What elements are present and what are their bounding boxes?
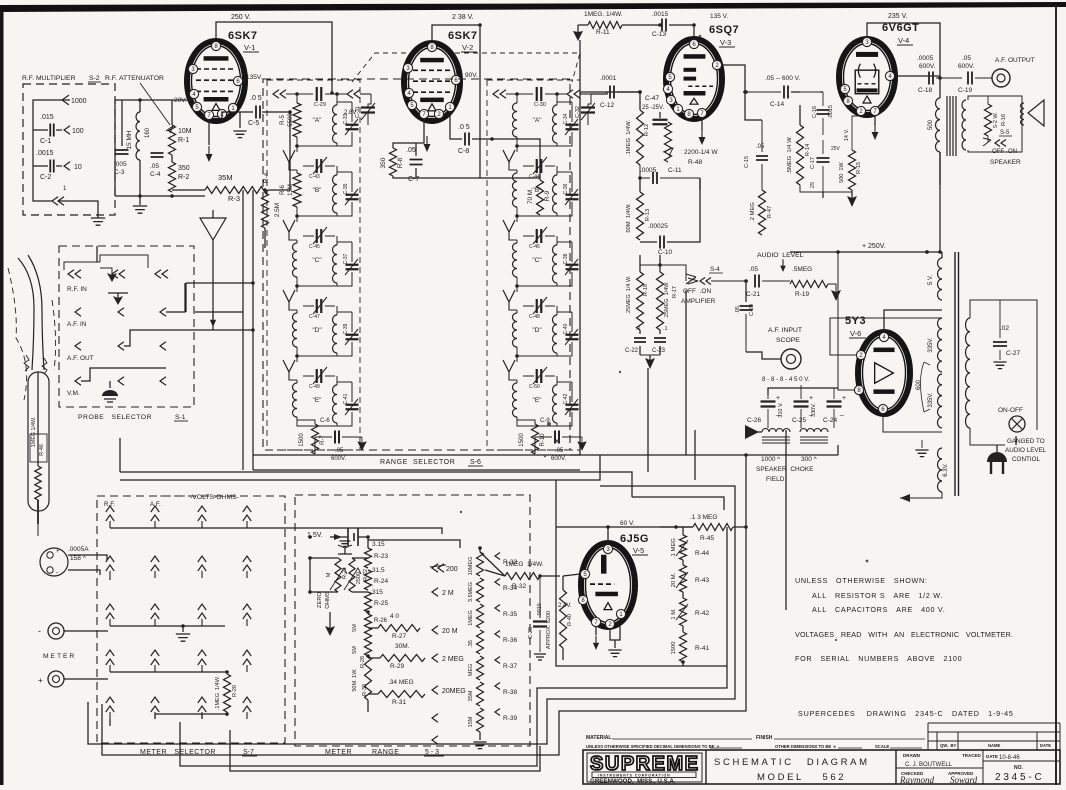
svg-text:.0005A: .0005A	[68, 546, 89, 553]
svg-text:1MEG: 1MEG	[468, 610, 474, 626]
svg-text:R-31: R-31	[392, 699, 406, 706]
resistor R-28	[352, 634, 372, 668]
svg-text:R-6: R-6	[280, 185, 286, 195]
wire bus D2	[746, 454, 838, 456]
resistor R-12 .1MEG	[626, 90, 650, 165]
switch S-1 row VM	[67, 368, 166, 397]
svg-text:1MEG 1/4W.: 1MEG 1/4W.	[31, 417, 37, 448]
svg-text:R-37: R-37	[503, 663, 517, 670]
resistor R-43 20M	[671, 560, 709, 592]
svg-text:R-47: R-47	[767, 206, 773, 219]
svg-text:C-23: C-23	[652, 348, 666, 354]
wire routing top center dashed	[352, 53, 580, 82]
svg-text:A.F. IN: A.F. IN	[67, 321, 87, 328]
svg-text:.015: .015	[40, 114, 54, 121]
resistor R-42 1M	[671, 592, 709, 626]
tube V3 6SQ7	[666, 39, 722, 119]
svg-text:MATERIAL: MATERIAL	[586, 735, 611, 741]
trimmer capacitor C-32	[575, 94, 595, 125]
svg-text:R-23: R-23	[374, 553, 388, 560]
svg-text:C-44: C-44	[529, 174, 540, 180]
svg-text:C. J. BOUTWELL: C. J. BOUTWELL	[905, 762, 953, 768]
svg-text:R-17: R-17	[672, 286, 678, 298]
wire V6 pin4 to transformer	[884, 310, 930, 332]
svg-text:6SK7: 6SK7	[228, 30, 258, 42]
svg-text:1500: 1500	[671, 642, 677, 655]
svg-text:R-18: R-18	[643, 284, 649, 296]
svg-text:R-10: R-10	[540, 433, 546, 447]
svg-text:MEG: MEG	[468, 664, 474, 677]
wire 235V supply V4	[867, 23, 940, 90]
svg-text:30M.: 30M.	[395, 643, 410, 650]
svg-text:100: 100	[72, 128, 84, 135]
svg-text:C-24: C-24	[823, 417, 837, 424]
tube V5 pins	[578, 544, 625, 628]
svg-text:C-37: C-37	[343, 253, 349, 264]
svg-text:S C H E M A T I C D I A G: S C H E M A T I C D I A G R A M	[714, 757, 867, 768]
resistor R-41 1500	[671, 626, 709, 666]
svg-text:"C": "C"	[532, 257, 542, 264]
tube V2 pins	[403, 42, 460, 118]
svg-text:35M: 35M	[468, 690, 474, 701]
ground R11	[573, 25, 583, 41]
svg-text:.05: .05	[406, 147, 416, 154]
svg-text:3.15: 3.15	[372, 541, 385, 548]
svg-text:C-48: C-48	[529, 314, 540, 320]
wire filter bus	[768, 388, 838, 395]
svg-text:A.F. OUTPUT: A.F. OUTPUT	[995, 57, 1035, 64]
capacitor C-17 electrolytic	[810, 140, 841, 192]
wire bottom long 1	[88, 497, 735, 744]
wire probe tip lead	[37, 524, 39, 536]
svg-text:.35: .35	[468, 640, 474, 648]
svg-text:1 M.: 1 M.	[671, 608, 677, 620]
svg-text:SPEAKER CHOKE: SPEAKER CHOKE	[756, 466, 814, 473]
resistor R-47 .2MEG	[750, 164, 773, 235]
svg-text:R-4: R-4	[263, 172, 270, 183]
probe body R-46	[28, 372, 49, 524]
resistor R-15 500 1W	[839, 125, 862, 190]
resistor R-18 .25MEG	[626, 272, 649, 330]
label 6J5G V-5	[620, 533, 649, 555]
svg-text:1500: 1500	[519, 433, 525, 447]
wire ladder2 top	[479, 548, 481, 552]
svg-text:25V: 25V	[831, 146, 841, 152]
svg-text:5M: 5M	[352, 624, 358, 632]
svg-text:20MEG: 20MEG	[442, 688, 466, 695]
svg-text:SUPERCEDES DRAWING 2345-C: SUPERCEDES DRAWING 2345-C DATED 1-9-45	[798, 709, 1014, 718]
tube V6 pins	[854, 332, 888, 413]
resistor R-35 1MEG	[468, 604, 517, 628]
resistor R-45 .13MEG	[660, 514, 748, 542]
labels RF AF columns	[104, 501, 161, 508]
svg-text:R-24: R-24	[374, 578, 388, 585]
svg-text:600: 600	[916, 379, 922, 390]
resistor R-3 35M	[172, 173, 268, 203]
svg-text:V-1: V-1	[244, 43, 255, 52]
capacitor C-12	[580, 75, 640, 109]
svg-text:R-26: R-26	[374, 618, 388, 624]
svg-text:C-18: C-18	[918, 87, 932, 94]
titleblock material finish line	[586, 735, 925, 741]
terminal meter plus	[38, 671, 108, 687]
svg-text:50M. 1W.: 50M. 1W.	[352, 668, 358, 692]
svg-text:.0001: .0001	[600, 75, 617, 82]
label PROBE SELECTOR S-1	[78, 414, 188, 421]
transformer T-output secondary	[962, 100, 966, 150]
svg-text:UNLESS OTHERWISE SPECIFIED DEC: UNLESS OTHERWISE SPECIFIED DECIMAL DIMEN…	[586, 744, 720, 749]
wire S2 to ground	[58, 201, 98, 218]
svg-text:3.5MEG: 3.5MEG	[468, 582, 474, 602]
capacitor C-7	[406, 143, 423, 183]
svg-text:C-17: C-17	[810, 157, 816, 169]
logo SUPREME	[587, 753, 702, 785]
svg-text:600V.: 600V.	[958, 63, 975, 70]
wire V2 pin7 arrow	[424, 136, 431, 152]
svg-text:90V.: 90V.	[465, 72, 478, 79]
resistor R-2 350	[169, 155, 190, 192]
svg-text:ZERO: ZERO	[317, 591, 323, 608]
wire bus F	[632, 497, 724, 510]
tube V4 pins	[840, 37, 894, 115]
svg-text:C-26: C-26	[747, 417, 761, 424]
choke 1000ohm	[762, 429, 790, 444]
wire 63 arrow	[900, 492, 942, 502]
labels speaker choke field	[756, 456, 818, 483]
ground probe dashed	[100, 268, 117, 282]
svg-text:2200-1/4 W: 2200-1/4 W	[684, 149, 718, 156]
label RF MULTIPLIER S-2	[22, 75, 101, 82]
capacitor C-10 .00025	[640, 223, 690, 256]
svg-text:C-47: C-47	[309, 314, 320, 320]
wire bus C	[120, 472, 632, 497]
svg-text:C-10: C-10	[658, 249, 672, 256]
svg-text:50M 1/4W.: 50M 1/4W.	[626, 203, 632, 233]
svg-text:CONTIOL: CONTIOL	[1012, 456, 1040, 463]
tuned circuit B of group x=487	[503, 150, 579, 222]
wire R3 right to R4	[263, 110, 292, 192]
wire S-4 riser	[685, 290, 687, 455]
svg-text:SCALE: SCALE	[875, 744, 889, 749]
svg-text:.25MEG 1/4W.: .25MEG 1/4W.	[664, 281, 670, 319]
svg-text:C-6: C-6	[320, 418, 330, 424]
svg-text:1MEG 1/4W.: 1MEG 1/4W.	[505, 561, 544, 568]
wire S3 left bus	[308, 556, 368, 594]
label ZERO OHMS	[317, 591, 331, 609]
svg-text:.05: .05	[749, 266, 758, 273]
capacitor C-21	[746, 266, 790, 298]
resistor R-17 .25MEG	[657, 272, 679, 330]
svg-text:C-33: C-33	[343, 113, 349, 124]
svg-text:10M: 10M	[178, 128, 192, 135]
resistor R-30 50M	[352, 656, 372, 700]
wire bottom long 4	[230, 730, 540, 771]
svg-text:.0015: .0015	[652, 11, 669, 18]
svg-text:R-27: R-27	[392, 633, 406, 640]
ground S-7	[176, 626, 190, 641]
svg-text:RANGE SELECTOR: RANGE SELECTOR	[380, 459, 455, 466]
svg-text:.05: .05	[756, 144, 765, 150]
svg-text:R-40: R-40	[567, 614, 573, 626]
svg-text:OTHER DIMENSIONS TO BE ±: OTHER DIMENSIONS TO BE ±	[775, 744, 837, 749]
capacitor C-28	[528, 576, 552, 660]
svg-text:C-19: C-19	[958, 87, 972, 94]
svg-text:C-22: C-22	[625, 348, 639, 354]
svg-text:R-41: R-41	[695, 645, 709, 652]
svg-text:C-40: C-40	[563, 323, 569, 334]
wire S1 to range selector vertical	[242, 190, 244, 470]
resistor R-14 .5MEG	[787, 125, 811, 185]
svg-text:I N S T R U M E N T S C O R: I N S T R U M E N T S C O R P O R A T I …	[598, 774, 670, 778]
svg-text:335V.: 335V.	[928, 337, 934, 352]
tuned circuit A of group x=487	[513, 94, 579, 152]
transformer T-power winding 335a	[928, 318, 942, 372]
svg-text:.1 MEG: .1 MEG	[671, 538, 677, 558]
wire C-15 to audio bus	[745, 92, 762, 120]
svg-text:C-34: C-34	[563, 113, 569, 124]
tube V1 pins	[188, 41, 242, 119]
svg-text:.0005: .0005	[640, 167, 657, 174]
svg-text:"A": "A"	[313, 117, 323, 124]
ground C5	[233, 112, 246, 138]
capacitor C-3	[114, 100, 129, 176]
transformer T-power winding 5V	[927, 252, 942, 300]
transformer T-output core	[947, 96, 956, 156]
capacitor C-4	[150, 153, 164, 178]
svg-text:R-25: R-25	[374, 600, 388, 607]
wire audio bus to S4	[659, 255, 661, 265]
titleblock revision table	[928, 723, 1060, 750]
svg-text:R-30: R-30	[362, 684, 368, 696]
capacitor C-2	[33, 150, 82, 181]
svg-text:R-45: R-45	[700, 535, 714, 542]
svg-text:60 V.: 60 V.	[620, 520, 635, 527]
svg-text:2 3 4 5 - C: 2 3 4 5 - C	[995, 772, 1042, 783]
antenna	[200, 210, 226, 330]
svg-text:C-2: C-2	[40, 174, 51, 181]
wire 6J5G enclosure	[556, 480, 727, 666]
wire R-40 to V5 pin5	[563, 574, 580, 576]
switch S-7 row 2 contacts	[106, 556, 251, 580]
svg-text:20 M.: 20 M.	[671, 572, 677, 587]
svg-text:"C": "C"	[312, 257, 322, 264]
svg-text:C-42: C-42	[563, 393, 569, 404]
switch S-6 range selector outer dashed box	[263, 79, 570, 450]
tube V6 5Y3	[858, 332, 910, 414]
label RF ATTENUATOR	[105, 75, 170, 125]
contact common S2	[33, 186, 67, 205]
capacitor C-5	[222, 95, 290, 127]
svg-text:C-14: C-14	[770, 101, 784, 108]
tuned circuit E of group x=487	[503, 360, 579, 426]
speaker network box	[968, 96, 1022, 152]
svg-text:C-7: C-7	[408, 176, 419, 183]
svg-text:1000: 1000	[761, 456, 776, 463]
choke 300ohm	[800, 429, 828, 444]
svg-text:R-8: R-8	[397, 157, 404, 168]
wire bus A	[570, 40, 580, 455]
switch S-7 row 3 contacts	[106, 604, 251, 628]
label 6SQ7 V-3	[709, 24, 739, 47]
svg-text:"E": "E"	[313, 397, 323, 404]
svg-text:C-41: C-41	[343, 393, 349, 404]
svg-text:1MEG. 1/4W.: 1MEG. 1/4W.	[584, 11, 623, 18]
svg-text:C-25: C-25	[792, 417, 806, 424]
resistor R-26	[352, 614, 388, 634]
switch S-1 row RF IN	[64, 255, 168, 293]
capacitor C-14	[745, 75, 820, 108]
svg-text:V-3: V-3	[720, 38, 731, 47]
svg-text:.05 -- 600 V.: .05 -- 600 V.	[765, 75, 800, 82]
svg-text:5 V.: 5 V.	[928, 275, 934, 285]
svg-text:DATE: DATE	[1040, 743, 1051, 748]
svg-text:R-36: R-36	[503, 637, 517, 644]
wire V4 pin7 arrow	[872, 116, 879, 140]
svg-text:R-1: R-1	[178, 137, 189, 144]
label AUDIO LEVEL	[757, 252, 804, 272]
svg-text:C-20: C-20	[749, 304, 755, 316]
label RANGE SELECTOR S-6	[380, 459, 483, 466]
svg-text:20 M: 20 M	[442, 628, 458, 635]
svg-text:ON: ON	[1008, 149, 1017, 155]
resistor R-10 1500	[517, 420, 546, 454]
ground S-3 lower	[325, 612, 335, 636]
svg-text:QW. BY: QW. BY	[940, 743, 956, 748]
svg-text:R-15: R-15	[856, 162, 862, 174]
wire routing right of S6 to V3	[591, 92, 640, 94]
switch S-7 row 5 contacts	[106, 697, 251, 726]
svg-text:6SQ7: 6SQ7	[709, 24, 739, 36]
svg-text:6J5G: 6J5G	[620, 533, 649, 545]
svg-text:2.5M: 2.5M	[274, 203, 281, 217]
titleblock main box	[583, 750, 1060, 784]
svg-text:"D": "D"	[312, 327, 322, 334]
resistor R-19 .5MEG	[790, 266, 841, 301]
svg-text:350: 350	[380, 157, 387, 168]
tube V5 6J5G	[581, 543, 635, 627]
contacts S-3 values	[430, 564, 466, 744]
svg-text:5Y3: 5Y3	[845, 315, 866, 327]
svg-text:A.F. INPUT: A.F. INPUT	[768, 327, 802, 334]
svg-text:C-38: C-38	[563, 253, 569, 264]
svg-text:10: 10	[74, 164, 82, 171]
svg-text:ON-OFF: ON-OFF	[998, 407, 1023, 414]
svg-text:PROBE SELECTOR: PROBE SELECTOR	[78, 414, 152, 421]
switch S-2 box dashed	[23, 84, 115, 215]
svg-text:25 -25V.: 25 -25V.	[642, 105, 664, 111]
svg-text:-: -	[38, 626, 41, 636]
svg-text:600V.: 600V.	[919, 63, 936, 70]
svg-text:.2 MEG: .2 MEG	[750, 202, 756, 222]
label 5Y3 V-6	[845, 315, 866, 338]
switch contact row top of group at x=267	[273, 87, 371, 108]
svg-text:DATE: DATE	[986, 754, 998, 759]
svg-text:"D": "D"	[532, 327, 542, 334]
svg-text:5M: 5M	[352, 646, 358, 654]
wire V3 plate supply	[693, 25, 695, 42]
svg-text:-VOLTS-OHMS-: -VOLTS-OHMS-	[190, 494, 239, 501]
trimmer R-22	[344, 558, 369, 592]
transformer T-power core	[955, 252, 959, 496]
ground V5 cathode	[608, 625, 621, 657]
svg-text:R-12: R-12	[644, 124, 650, 137]
svg-text:R-38: R-38	[503, 689, 517, 696]
svg-text:8 - 8 - 8 - 4 5 0 V.: 8 - 8 - 8 - 4 5 0 V.	[762, 376, 810, 383]
svg-text:6SK7: 6SK7	[448, 30, 478, 42]
svg-text:135 V.: 135 V.	[710, 13, 728, 20]
svg-text:R.F. MULTIPLIER: R.F. MULTIPLIER	[22, 75, 76, 82]
svg-text:C-31: C-31	[355, 106, 361, 118]
svg-text:160: 160	[145, 127, 151, 138]
wire attenuator left vertical	[114, 100, 116, 196]
svg-text:C-47: C-47	[645, 95, 659, 102]
svg-text:15M: 15M	[288, 184, 294, 196]
jack crystal .0005A	[40, 546, 107, 577]
wire V5 pin7 arrow	[593, 627, 599, 650]
svg-text:.1 3 MEG: .1 3 MEG	[690, 514, 717, 521]
resistor R-31 .34MEG	[368, 679, 425, 712]
capacitor C-18	[917, 55, 962, 94]
resistor R-8 350	[380, 119, 424, 176]
capacitor C-11 .0005	[640, 165, 700, 184]
wire 238V supply V2	[432, 25, 480, 178]
svg-text:158: 158	[70, 555, 81, 562]
svg-text:R-32: R-32	[512, 583, 526, 590]
svg-text:+: +	[56, 549, 60, 555]
svg-text:.25MEG 1/4 W.: .25MEG 1/4 W.	[626, 275, 632, 314]
resistor R-11 1MEG	[578, 11, 660, 36]
svg-text:C-8: C-8	[458, 148, 469, 155]
svg-text:V-6: V-6	[850, 329, 861, 338]
svg-text:.0005: .0005	[917, 55, 934, 62]
tube V1 6SK7	[187, 41, 245, 121]
capacitor C-23	[652, 326, 668, 355]
wire V5 plate top	[556, 527, 608, 545]
ground V4 cathode	[847, 192, 857, 207]
svg-text:AUDIO LEVEL: AUDIO LEVEL	[757, 252, 804, 259]
svg-text:C-12: C-12	[600, 102, 614, 109]
svg-text:35M: 35M	[218, 173, 233, 182]
capacitor C-15	[744, 120, 768, 168]
tube V2 6SK7	[404, 43, 460, 121]
wire output transformer to 250V bus	[939, 152, 941, 252]
svg-text:600V.: 600V.	[331, 456, 346, 462]
wire bus D routes to 5Y3 caps	[253, 455, 746, 527]
ground S1 internal	[102, 381, 118, 402]
svg-text:S-6: S-6	[470, 459, 481, 466]
svg-text:.0015: .0015	[36, 150, 54, 157]
svg-text:.005: .005	[114, 161, 127, 168]
label METER RANGE S-3	[325, 749, 444, 756]
svg-text:C-13: C-13	[652, 31, 666, 38]
resistor R-27 40	[368, 613, 420, 640]
svg-text:5500: 5500	[288, 113, 294, 127]
svg-text:4 0: 4 0	[390, 613, 399, 620]
svg-text:C-50: C-50	[529, 384, 540, 390]
svg-text:V.M.: V.M.	[67, 390, 80, 397]
svg-text:R-39: R-39	[503, 715, 517, 722]
svg-text:M: M	[326, 572, 332, 577]
svg-text:C-30: C-30	[534, 102, 546, 108]
svg-text:_: _	[839, 409, 844, 416]
svg-text:OHMS: OHMS	[325, 591, 331, 609]
svg-text:15 MH: 15 MH	[126, 130, 133, 149]
svg-text:.05: .05	[555, 448, 564, 454]
switch S-5	[983, 130, 1017, 155]
svg-text:Raymond: Raymond	[899, 775, 934, 785]
inductor 15MH 160ohm	[126, 100, 151, 196]
svg-text:VOLTAGES READ WITH AN: VOLTAGES READ WITH AN ELECTRONIC VOLTMET…	[795, 630, 1013, 639]
